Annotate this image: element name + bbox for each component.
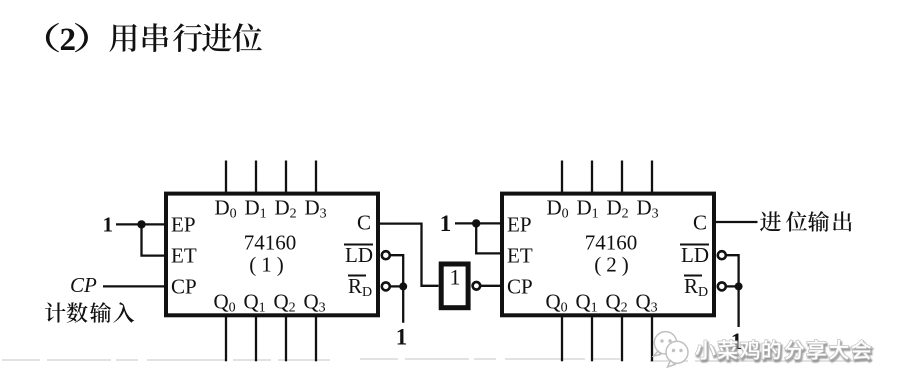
svg-text:ET: ET xyxy=(507,243,533,267)
svg-text:(2): (2) xyxy=(594,253,634,277)
svg-text:1: 1 xyxy=(396,325,408,350)
svg-text:1: 1 xyxy=(440,211,452,236)
svg-text:CP: CP xyxy=(507,274,533,298)
svg-text:CP: CP xyxy=(70,273,97,297)
svg-text:EP: EP xyxy=(507,212,532,236)
svg-text:EP: EP xyxy=(171,212,196,236)
svg-text:ET: ET xyxy=(171,243,197,267)
svg-text:74160: 74160 xyxy=(244,231,297,255)
svg-text:C: C xyxy=(693,211,707,235)
svg-text:1: 1 xyxy=(450,265,461,290)
svg-text:(1): (1) xyxy=(249,253,289,277)
svg-text:74160: 74160 xyxy=(585,231,638,255)
svg-text:CP: CP xyxy=(171,274,197,298)
svg-text:LD: LD xyxy=(345,243,373,267)
svg-text:1: 1 xyxy=(103,212,114,236)
svg-text:2: 2 xyxy=(60,22,77,58)
svg-text:C: C xyxy=(357,211,371,235)
svg-text:LD: LD xyxy=(681,243,709,267)
